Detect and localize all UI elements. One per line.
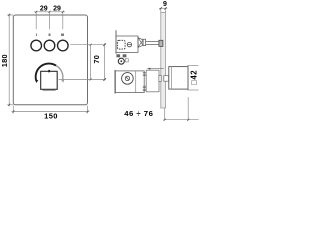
svg-text:III: III [61,33,64,37]
svg-text:150: 150 [44,112,58,121]
svg-text:II: II [49,33,51,37]
svg-text:29: 29 [53,6,61,13]
svg-text:180: 180 [0,54,9,67]
svg-text:70: 70 [92,55,101,64]
svg-text:I: I [36,33,37,37]
svg-text:29: 29 [40,6,48,13]
svg-text:46 ÷ 76: 46 ÷ 76 [124,109,153,118]
svg-text:□42: □42 [190,70,199,85]
svg-text:9: 9 [163,1,167,8]
